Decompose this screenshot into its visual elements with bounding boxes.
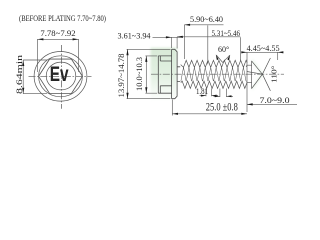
second pitch mark extension lines: [220, 89, 227, 98]
dim 5.31~5.46 dimension line: [177, 36, 240, 38]
svg-text:7.0~9.0: 7.0~9.0: [260, 96, 290, 105]
dim 1.81 leader lines: [200, 95, 219, 97]
dim 5.31~5.46 right extension line: [239, 37, 241, 60]
dim 3.61~3.94 dimension line: [153, 36, 184, 38]
60 degree angle arrows: [216, 55, 230, 61]
thread helix lines: [181, 67, 246, 81]
side view: screw axis centerline: [151, 73, 284, 75]
green highlight thread top edge: [181, 59, 247, 61]
svg-text:10.0~10.3: 10.0~10.3: [135, 57, 144, 91]
110 degree angle lines: [262, 58, 270, 91]
green highlight drill point: [252, 60, 263, 89]
svg-text:7.78~7.92: 7.78~7.92: [40, 29, 75, 38]
dim 7.78~7.92 arrows: [37, 38, 43, 40]
dim 7.78~7.92 extension lines: [37, 39, 78, 72]
head top view: outer flange circle: [34, 52, 87, 102]
svg-text:Ev: Ev: [50, 62, 69, 86]
drill point flanks: [252, 61, 263, 89]
shank under head: [177, 67, 180, 82]
svg-text:(BEFORE PLATING 7.70~7.80): (BEFORE PLATING 7.70~7.80): [19, 13, 106, 23]
dim 25.0 extension line left: [171, 100, 173, 116]
dim 3.61~3.94 arrows (outside): [166, 36, 183, 39]
head top view: washer circle: [39, 56, 83, 97]
dim 1.81 extension lines: [206, 89, 212, 97]
dim 3.61~3.94 extension lines: [172, 37, 178, 48]
drill point cutting lip: [247, 72, 263, 75]
dim 25.0 dimension line: [172, 113, 247, 115]
dim 5.90~6.40 dimension line and extension: [184, 25, 223, 59]
dim 25.0 arrows: [172, 113, 247, 115]
svg-text:25.0 ±0.8: 25.0 ±0.8: [206, 100, 238, 114]
dim 8.64min dimension line: [22, 60, 24, 94]
svg-text:1.81: 1.81: [196, 87, 208, 96]
drill point body: [246, 65, 252, 82]
thread bottom profile: [181, 81, 247, 88]
green highlight thread bottom edge: [181, 87, 247, 89]
dim 8.64min arrows: [22, 60, 24, 66]
dim 13.97~14.78 extension lines: [127, 49, 171, 98]
head top view: horizontal centerline: [29, 75, 92, 77]
head side view: outline: [158, 49, 177, 98]
svg-text:4.45~4.55: 4.45~4.55: [247, 44, 280, 53]
svg-text:5.90~6.40: 5.90~6.40: [190, 15, 223, 24]
svg-text:5.31~5.46: 5.31~5.46: [212, 29, 241, 38]
svg-text:110°: 110°: [270, 66, 279, 84]
green highlight head side view: [151, 48, 178, 100]
thread top profile: [181, 60, 247, 67]
dim 7.0~9.0 arrow: [247, 103, 253, 105]
head side view: hex inner lines: [160, 56, 171, 93]
head top view: hexagon: [39, 59, 83, 93]
head top view: logo circle: [46, 62, 76, 90]
dim 13.97~14.78 arrows: [126, 49, 128, 98]
second pitch arrows (outside): [215, 95, 232, 97]
dim 13.97~14.78 dimension line: [127, 49, 129, 98]
dim 10.0~10.3 dimension line: [145, 56, 147, 93]
dim 7.78~7.92 dimension line: [37, 38, 78, 40]
dim 5.90~6.40 right extension line: [207, 25, 209, 64]
svg-text:8.64min: 8.64min: [15, 55, 24, 94]
dim 5.90~6.40 arrow: [184, 24, 190, 26]
dim 4.45~4.55 dimension line: [242, 51, 281, 53]
svg-text:60°: 60°: [218, 45, 229, 54]
dim 10.0~10.3 extension lines: [145, 56, 157, 93]
dim 10.0~10.3 arrows: [145, 56, 147, 93]
dim 4.45~4.55 arrows (outside): [241, 51, 283, 53]
dim 8.64min extension lines: [23, 60, 47, 94]
drill point flute edge: [251, 61, 253, 89]
svg-text:3.61~3.94: 3.61~3.94: [118, 31, 151, 40]
60 degree angle lines: [216, 55, 229, 63]
svg-text:13.97~14.78: 13.97~14.78: [117, 54, 126, 98]
dim 1.81 arrows (outside): [201, 95, 217, 97]
head top view: vertical centerline: [60, 45, 62, 109]
dim 4.45~4.55 extension lines: [247, 52, 278, 112]
second pitch mark leader lines: [214, 95, 234, 97]
dim 7.0~9.0 dimension line: [247, 103, 297, 105]
